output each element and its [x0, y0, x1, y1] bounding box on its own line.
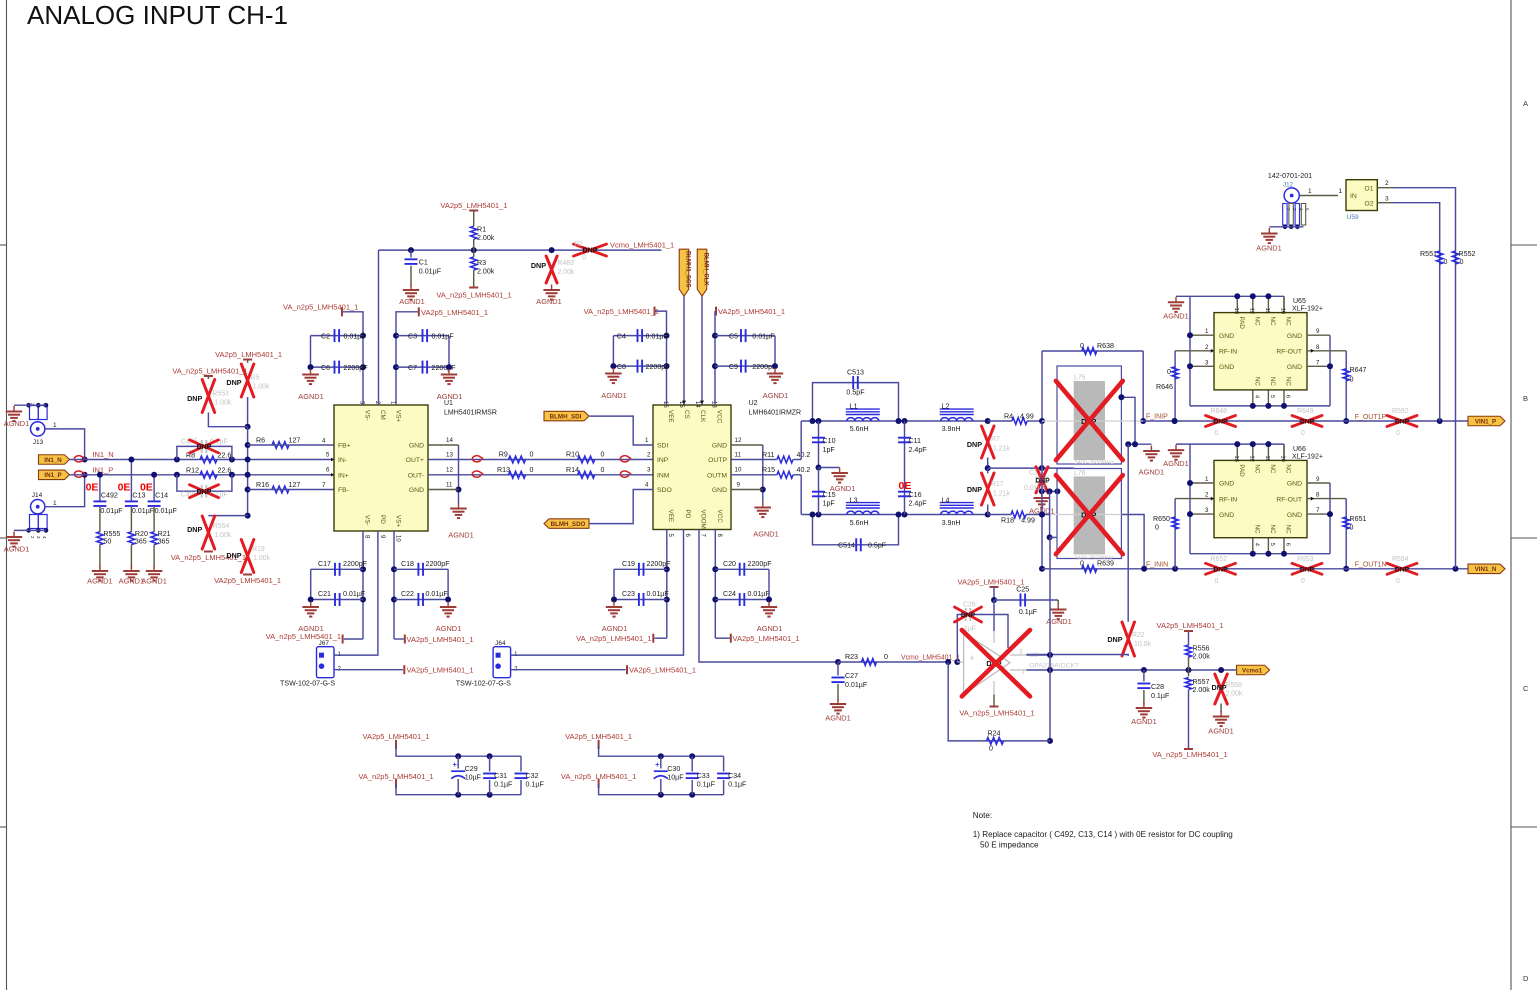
svg-text:1: 1 — [1205, 328, 1209, 335]
svg-text:FB+: FB+ — [338, 443, 351, 450]
svg-text:0.01µF: 0.01µF — [748, 590, 771, 598]
svg-text:2.00k: 2.00k — [1193, 686, 1211, 694]
svg-text:0E: 0E — [86, 482, 99, 494]
svg-text:40.2: 40.2 — [797, 451, 811, 459]
svg-text:GND: GND — [1219, 481, 1234, 488]
svg-text:C21: C21 — [318, 590, 331, 598]
svg-text:0: 0 — [1301, 430, 1305, 437]
svg-text:R646: R646 — [1156, 383, 1173, 391]
svg-text:GND: GND — [1287, 364, 1302, 371]
svg-text:22.6: 22.6 — [218, 467, 232, 475]
svg-text:C23: C23 — [622, 590, 635, 598]
svg-text:VIN1_P: VIN1_P — [1475, 418, 1496, 425]
svg-text:0: 0 — [1215, 578, 1219, 585]
svg-text:C17: C17 — [318, 560, 331, 568]
svg-text:2200pF: 2200pF — [426, 560, 451, 568]
svg-text:VA2p5_LMH5401_1: VA2p5_LMH5401_1 — [733, 634, 800, 643]
svg-text:DNP: DNP — [1395, 419, 1410, 426]
svg-text:R7: R7 — [991, 436, 1000, 443]
svg-text:50: 50 — [103, 538, 111, 546]
svg-text:AGND1: AGND1 — [87, 577, 112, 586]
svg-text:9: 9 — [1316, 328, 1320, 335]
svg-text:11: 11 — [1264, 308, 1270, 314]
svg-text:DNP: DNP — [1395, 566, 1410, 573]
svg-text:2200pF: 2200pF — [344, 364, 369, 372]
svg-text:0.01µF: 0.01µF — [426, 590, 449, 598]
svg-text:J14: J14 — [32, 492, 43, 499]
svg-text:1: 1 — [53, 500, 57, 507]
svg-text:VIN1_N: VIN1_N — [1475, 566, 1497, 573]
svg-text:R639: R639 — [1097, 560, 1114, 568]
svg-text:AGND1: AGND1 — [4, 545, 29, 554]
svg-text:R652: R652 — [1211, 556, 1228, 563]
svg-text:C14: C14 — [155, 492, 168, 500]
svg-text:AGND1: AGND1 — [1208, 727, 1233, 736]
svg-text:U2: U2 — [749, 400, 758, 407]
svg-text:PD: PD — [379, 515, 386, 524]
svg-text:0: 0 — [1350, 376, 1354, 384]
svg-text:VA2p5_LMH5401_1: VA2p5_LMH5401_1 — [215, 350, 282, 359]
svg-text:R552: R552 — [1459, 250, 1476, 258]
svg-text:NC: NC — [1253, 525, 1260, 534]
svg-text:GND: GND — [1219, 333, 1234, 340]
svg-text:365: 365 — [135, 538, 147, 546]
svg-text:CLK: CLK — [699, 410, 706, 423]
svg-text:C10: C10 — [823, 437, 836, 445]
svg-text:PD: PD — [684, 510, 691, 519]
svg-text:VS+: VS+ — [395, 410, 402, 422]
svg-text:R653: R653 — [1297, 556, 1314, 563]
svg-text:0: 0 — [1350, 524, 1354, 532]
svg-text:TSW-102-07-G-S: TSW-102-07-G-S — [456, 680, 511, 688]
svg-text:C33: C33 — [697, 772, 710, 780]
svg-text:3: 3 — [1385, 195, 1389, 202]
svg-text:RF-IN: RF-IN — [1219, 496, 1237, 503]
svg-text:LMH5401IRMSR: LMH5401IRMSR — [444, 410, 497, 417]
svg-text:5: 5 — [326, 452, 330, 459]
svg-text:J13: J13 — [33, 439, 44, 446]
svg-text:VA_n2p5_LMH5401_1: VA_n2p5_LMH5401_1 — [172, 367, 247, 376]
svg-text:AGND1: AGND1 — [602, 624, 627, 633]
svg-text:PAD: PAD — [1238, 317, 1245, 330]
svg-text:R554: R554 — [213, 523, 230, 530]
svg-text:L2: L2 — [942, 403, 950, 411]
svg-text:U1: U1 — [444, 400, 453, 407]
svg-text:0: 0 — [530, 466, 534, 474]
svg-text:R17: R17 — [991, 481, 1004, 488]
svg-text:2: 2 — [647, 452, 651, 459]
svg-text:10µF: 10µF — [465, 774, 482, 782]
svg-text:C29: C29 — [465, 765, 478, 773]
svg-text:2200pF: 2200pF — [647, 560, 672, 568]
svg-text:VA2p5_LMH5401_1: VA2p5_LMH5401_1 — [421, 308, 488, 317]
svg-text:DNP: DNP — [197, 489, 212, 496]
svg-text:C24: C24 — [723, 590, 736, 598]
svg-text:U59: U59 — [1347, 214, 1359, 221]
svg-text:DNP: DNP — [1300, 566, 1315, 573]
svg-text:PAD: PAD — [1238, 464, 1245, 477]
svg-text:C34: C34 — [728, 772, 741, 780]
svg-text:DNP: DNP — [967, 485, 982, 494]
svg-text:NC: NC — [1285, 464, 1292, 473]
svg-text:ANALOG INPUT CH-1: ANALOG INPUT CH-1 — [27, 0, 288, 30]
svg-text:RF-IN: RF-IN — [1219, 349, 1237, 356]
svg-text:VA2p5_LMH5401_1: VA2p5_LMH5401_1 — [407, 635, 474, 644]
svg-text:0.01µF: 0.01µF — [155, 507, 178, 515]
svg-text:1.21k: 1.21k — [993, 491, 1010, 498]
svg-text:R551: R551 — [1420, 250, 1437, 258]
svg-text:0: 0 — [989, 745, 993, 753]
svg-text:C13: C13 — [132, 492, 145, 500]
svg-text:1.00k: 1.00k — [215, 400, 232, 407]
svg-text:1.21k: 1.21k — [993, 446, 1010, 453]
svg-text:F_ININ: F_ININ — [1146, 562, 1168, 569]
svg-text:4: 4 — [970, 655, 974, 662]
svg-text:13: 13 — [1233, 455, 1239, 461]
svg-text:10.0k: 10.0k — [1134, 641, 1151, 648]
svg-text:0: 0 — [1396, 430, 1400, 437]
svg-text:AGND1: AGND1 — [830, 484, 855, 493]
svg-text:0: 0 — [1444, 258, 1448, 266]
svg-text:3.9nH: 3.9nH — [942, 425, 961, 433]
svg-text:DNP: DNP — [187, 525, 202, 534]
svg-text:VCC: VCC — [716, 510, 723, 524]
svg-text:3: 3 — [1205, 507, 1209, 514]
svg-text:AGND1: AGND1 — [141, 577, 166, 586]
svg-text:INP: INP — [657, 457, 669, 464]
svg-text:L4: L4 — [942, 496, 950, 504]
svg-text:0: 0 — [1215, 430, 1219, 437]
svg-text:J64: J64 — [495, 640, 506, 647]
svg-text:6: 6 — [1285, 543, 1291, 546]
svg-text:R16: R16 — [256, 481, 269, 489]
svg-text:11: 11 — [735, 452, 742, 459]
svg-text:AGND1: AGND1 — [753, 530, 778, 539]
svg-text:0.01µF: 0.01µF — [100, 507, 123, 515]
svg-text:OUTP: OUTP — [708, 457, 727, 464]
svg-text:CS: CS — [683, 410, 690, 419]
svg-text:VCC: VCC — [716, 410, 723, 424]
svg-text:IN1_P: IN1_P — [92, 465, 113, 474]
svg-text:AGND1: AGND1 — [437, 392, 462, 401]
svg-text:GND: GND — [409, 487, 424, 494]
svg-text:3: 3 — [1019, 649, 1023, 656]
svg-text:VA_n2p5_LMH5401_1: VA_n2p5_LMH5401_1 — [436, 291, 511, 300]
svg-text:8: 8 — [1316, 492, 1320, 499]
svg-text:10: 10 — [1280, 455, 1286, 461]
svg-text:SDO: SDO — [657, 487, 672, 494]
svg-text:3: 3 — [1205, 359, 1209, 366]
svg-text:AGND1: AGND1 — [536, 297, 561, 306]
svg-text:INM: INM — [657, 473, 670, 480]
svg-text:B: B — [1523, 394, 1528, 403]
svg-text:0.1µF: 0.1µF — [1151, 692, 1170, 700]
svg-text:NC: NC — [1285, 377, 1292, 386]
svg-text:2: 2 — [1205, 344, 1209, 351]
svg-text:R18: R18 — [1001, 517, 1014, 525]
svg-text:0.01µF: 0.01µF — [646, 332, 669, 340]
svg-text:0.01µF: 0.01µF — [432, 332, 455, 340]
svg-text:2.00k: 2.00k — [477, 234, 495, 242]
svg-text:0: 0 — [1167, 368, 1171, 376]
svg-text:0.01µF: 0.01µF — [845, 681, 868, 689]
svg-text:AGND1: AGND1 — [4, 419, 29, 428]
svg-text:R12: R12 — [186, 467, 199, 475]
svg-text:NC: NC — [1285, 317, 1292, 326]
svg-text:2.00k: 2.00k — [1193, 653, 1211, 661]
svg-text:AGND1: AGND1 — [1139, 468, 1164, 477]
svg-text:AGND1: AGND1 — [763, 391, 788, 400]
svg-text:AGND1: AGND1 — [298, 392, 323, 401]
svg-text:0: 0 — [1460, 258, 1464, 266]
svg-text:10: 10 — [735, 467, 742, 474]
svg-text:IN: IN — [1350, 193, 1357, 200]
svg-text:C16: C16 — [909, 491, 922, 499]
svg-text:2.4pF: 2.4pF — [909, 446, 928, 454]
svg-text:AGND1: AGND1 — [825, 714, 850, 723]
svg-text:R594: R594 — [1392, 556, 1409, 563]
svg-text:0.01µF: 0.01µF — [132, 507, 155, 515]
svg-text:9: 9 — [1316, 476, 1320, 483]
svg-text:R651: R651 — [1350, 515, 1367, 523]
svg-text:GND: GND — [1219, 364, 1234, 371]
svg-text:GND: GND — [1287, 333, 1302, 340]
svg-text:0.5pF: 0.5pF — [846, 389, 865, 397]
svg-text:0.1µF: 0.1µF — [494, 781, 513, 789]
svg-text:NC: NC — [1269, 525, 1276, 534]
svg-text:0E: 0E — [899, 480, 912, 492]
svg-text:C7: C7 — [408, 364, 417, 372]
svg-text:AGND1: AGND1 — [399, 297, 424, 306]
svg-text:0: 0 — [1155, 524, 1159, 532]
svg-text:10µF: 10µF — [667, 774, 684, 782]
svg-text:DNP: DNP — [197, 444, 212, 451]
svg-text:NC: NC — [1269, 464, 1276, 473]
svg-text:15: 15 — [678, 401, 684, 408]
svg-text:0.1µF: 0.1µF — [526, 781, 545, 789]
svg-text:0: 0 — [601, 451, 605, 459]
svg-text:XLF-192+: XLF-192+ — [1292, 453, 1323, 460]
svg-text:R15: R15 — [762, 466, 775, 474]
svg-text:142-0701-201: 142-0701-201 — [1268, 172, 1312, 180]
svg-text:L1: L1 — [850, 403, 858, 411]
svg-text:LMH6401IRMZR: LMH6401IRMZR — [749, 410, 802, 417]
svg-text:C25: C25 — [1016, 585, 1029, 593]
svg-text:R14: R14 — [566, 466, 579, 474]
svg-text:VA_n2p5_LMH5401_1: VA_n2p5_LMH5401_1 — [283, 303, 358, 312]
svg-text:50 E impedance: 50 E impedance — [980, 841, 1039, 850]
svg-text:O1: O1 — [1364, 186, 1373, 193]
svg-text:VA2p5_LMH5401_1: VA2p5_LMH5401_1 — [1157, 621, 1224, 630]
svg-text:C3: C3 — [408, 332, 417, 340]
svg-text:R649: R649 — [1297, 408, 1314, 415]
svg-text:VS-: VS- — [364, 410, 371, 421]
svg-text:O2: O2 — [1364, 201, 1373, 208]
svg-text:14: 14 — [446, 437, 453, 444]
svg-text:BLMH_CLK: BLMH_CLK — [702, 253, 708, 287]
svg-text:VEE: VEE — [667, 410, 674, 423]
svg-text:VA2p5_LMH5401_1: VA2p5_LMH5401_1 — [407, 665, 474, 674]
svg-text:0.01µF: 0.01µF — [419, 268, 442, 276]
svg-text:VEE: VEE — [667, 510, 674, 523]
svg-text:NC: NC — [1253, 464, 1260, 473]
svg-text:SDI: SDI — [657, 443, 668, 450]
svg-text:AGND1: AGND1 — [436, 624, 461, 633]
svg-text:AGND1: AGND1 — [1131, 717, 1156, 726]
svg-text:GND: GND — [1287, 512, 1302, 519]
svg-text:FB-: FB- — [338, 487, 349, 494]
svg-text:AGND1: AGND1 — [1256, 244, 1281, 253]
svg-text:4: 4 — [645, 482, 649, 489]
svg-text:IN1_P: IN1_P — [44, 472, 61, 479]
svg-text:1: 1 — [1339, 188, 1343, 195]
svg-text:C492: C492 — [101, 492, 118, 500]
svg-text:+: + — [453, 760, 458, 769]
svg-text:R24: R24 — [987, 730, 1000, 738]
svg-text:U66: U66 — [1293, 446, 1306, 453]
svg-text:11: 11 — [1264, 455, 1270, 461]
svg-text:AGND1: AGND1 — [601, 391, 626, 400]
svg-text:4.99: 4.99 — [1020, 413, 1034, 421]
svg-text:10: 10 — [1280, 308, 1286, 314]
svg-text:2200pF: 2200pF — [432, 364, 457, 372]
svg-text:2: 2 — [1205, 492, 1209, 499]
svg-text:R558: R558 — [1226, 682, 1243, 689]
svg-text:Vcmo1: Vcmo1 — [1242, 667, 1263, 674]
svg-text:R11: R11 — [762, 451, 775, 459]
svg-text:R1: R1 — [477, 226, 486, 234]
svg-text:BLMH_SDO: BLMH_SDO — [551, 521, 586, 528]
svg-text:VOOM: VOOM — [700, 510, 707, 529]
svg-text:10: 10 — [395, 535, 401, 542]
svg-text:1) Replace capacitor ( C492, C: 1) Replace capacitor ( C492, C13, C14 ) … — [973, 830, 1233, 839]
svg-text:0: 0 — [601, 466, 605, 474]
svg-text:DNP: DNP — [1213, 566, 1228, 573]
svg-text:DNP: DNP — [226, 378, 241, 387]
svg-text:13: 13 — [1233, 308, 1239, 314]
svg-text:F_OUT1P: F_OUT1P — [1355, 414, 1387, 421]
svg-text:5.6nH: 5.6nH — [850, 519, 869, 527]
svg-text:C20: C20 — [723, 560, 736, 568]
svg-text:NC: NC — [1269, 317, 1276, 326]
svg-text:12: 12 — [1248, 455, 1254, 461]
svg-text:12: 12 — [446, 467, 453, 474]
svg-text:GND: GND — [712, 443, 727, 450]
svg-text:7: 7 — [1316, 359, 1320, 366]
svg-text:R553: R553 — [212, 391, 229, 398]
svg-text:C18: C18 — [401, 560, 414, 568]
svg-text:DNP: DNP — [1107, 635, 1122, 644]
svg-text:7: 7 — [1316, 507, 1320, 514]
svg-text:GND: GND — [712, 487, 727, 494]
svg-text:1: 1 — [1022, 669, 1026, 676]
svg-text:Vcmo_LMH5401_1: Vcmo_LMH5401_1 — [901, 655, 960, 662]
svg-text:A: A — [1523, 99, 1528, 108]
svg-text:R10: R10 — [566, 451, 579, 459]
svg-text:11: 11 — [446, 482, 453, 489]
svg-text:2.00k: 2.00k — [558, 269, 575, 276]
svg-text:VA_n2p5_LMH5401_1: VA_n2p5_LMH5401_1 — [266, 632, 341, 641]
svg-text:5: 5 — [1269, 543, 1275, 546]
svg-text:0.1µF: 0.1µF — [1019, 608, 1038, 616]
svg-text:R6: R6 — [256, 437, 265, 445]
svg-text:AGND1: AGND1 — [1163, 459, 1188, 468]
svg-text:2.4pF: 2.4pF — [909, 500, 928, 508]
svg-text:R5: R5 — [251, 375, 260, 382]
svg-text:R650: R650 — [1153, 515, 1170, 523]
svg-text:CM: CM — [379, 410, 386, 420]
svg-text:1.00k: 1.00k — [253, 555, 270, 562]
svg-text:1: 1 — [1308, 188, 1312, 195]
svg-text:0.5pF: 0.5pF — [868, 542, 887, 550]
svg-text:0: 0 — [582, 255, 586, 262]
svg-text:C8: C8 — [617, 363, 626, 371]
svg-text:C: C — [1523, 684, 1529, 693]
svg-text:VA_n2p5_LMH5401_1: VA_n2p5_LMH5401_1 — [584, 307, 659, 316]
svg-text:R483: R483 — [558, 260, 575, 267]
svg-text:BLMH1_SCS: BLMH1_SCS — [684, 251, 690, 287]
svg-text:1: 1 — [1205, 476, 1209, 483]
svg-text:0.01µF: 0.01µF — [344, 332, 367, 340]
svg-text:R638: R638 — [1097, 342, 1114, 350]
svg-text:0.1µF: 0.1µF — [728, 781, 747, 789]
svg-text:DNP: DNP — [531, 261, 546, 270]
svg-text:OUTM: OUTM — [707, 473, 727, 480]
svg-text:NC: NC — [1269, 377, 1276, 386]
svg-text:0.01µF: 0.01µF — [343, 590, 366, 598]
svg-text:R556: R556 — [1193, 645, 1210, 653]
svg-text:VA2p5_LMH5401_1: VA2p5_LMH5401_1 — [440, 201, 507, 210]
svg-text:VS+: VS+ — [395, 515, 402, 527]
svg-text:0E: 0E — [118, 482, 131, 494]
svg-text:1.00k: 1.00k — [214, 532, 231, 539]
svg-text:8: 8 — [1316, 344, 1320, 351]
svg-text:AGND1: AGND1 — [448, 531, 473, 540]
svg-text:VA2p5_LMH5401_1: VA2p5_LMH5401_1 — [214, 576, 281, 585]
svg-text:2400-2500MHz: 2400-2500MHz — [1074, 460, 1114, 466]
svg-text:Note:: Note: — [973, 811, 992, 820]
svg-text:R647: R647 — [1350, 366, 1367, 374]
svg-text:C6: C6 — [321, 364, 330, 372]
svg-text:R19: R19 — [252, 546, 265, 553]
svg-text:TSW-102-07-G-S: TSW-102-07-G-S — [280, 680, 335, 688]
svg-text:C1: C1 — [419, 259, 428, 267]
svg-text:DNP: DNP — [1213, 419, 1228, 426]
svg-text:C513: C513 — [847, 369, 864, 377]
svg-text:C31: C31 — [494, 772, 507, 780]
svg-text:DNP: DNP — [187, 394, 202, 403]
svg-text:5.6nH: 5.6nH — [850, 425, 869, 433]
svg-text:0.01µF: 0.01µF — [647, 590, 670, 598]
svg-text:D: D — [1523, 974, 1529, 983]
svg-text:C30: C30 — [667, 765, 680, 773]
svg-text:J67: J67 — [319, 640, 330, 647]
svg-text:2200pF: 2200pF — [748, 560, 773, 568]
svg-text:3: 3 — [647, 467, 651, 474]
svg-text:3.9nH: 3.9nH — [942, 519, 961, 527]
svg-text:L75: L75 — [1074, 375, 1086, 382]
svg-text:0.01µF: 0.01µF — [752, 332, 775, 340]
svg-text:0: 0 — [1080, 342, 1084, 350]
svg-text:R9: R9 — [499, 451, 508, 459]
svg-text:Vcmo_LMH5401_1: Vcmo_LMH5401_1 — [610, 241, 674, 250]
svg-text:12: 12 — [1248, 308, 1254, 314]
svg-text:DNP: DNP — [1300, 419, 1315, 426]
svg-text:BLMH_SDI: BLMH_SDI — [550, 414, 582, 421]
svg-text:R592: R592 — [1392, 408, 1409, 415]
svg-text:RF-OUT: RF-OUT — [1276, 496, 1302, 503]
svg-text:1pF: 1pF — [823, 500, 836, 508]
